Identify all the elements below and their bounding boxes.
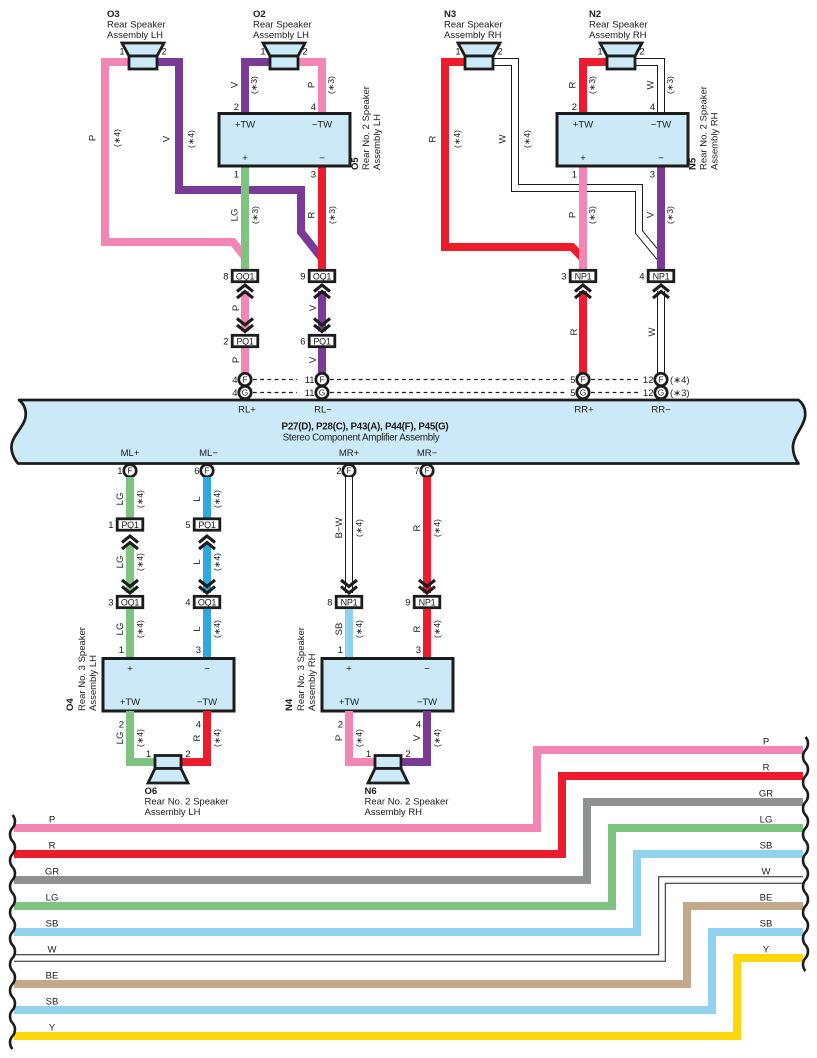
svg-text:RL+: RL+ [238,405,256,416]
svg-text:5: 5 [570,388,575,399]
svg-text:−TW: −TW [197,697,217,708]
svg-text:V: V [412,734,423,741]
svg-text:5: 5 [570,375,575,386]
svg-text:W: W [762,867,771,878]
svg-text:PQ1: PQ1 [121,520,139,530]
svg-text:Assembly LH: Assembly LH [253,30,309,41]
svg-text:O3: O3 [107,9,120,20]
svg-text:LG: LG [115,556,126,569]
svg-text:R: R [568,81,579,88]
svg-text:4: 4 [232,375,237,386]
svg-text:(∗4): (∗4) [432,519,442,537]
svg-text:Rear No. 2 Speaker: Rear No. 2 Speaker [365,797,449,808]
svg-text:OQ1: OQ1 [236,271,255,281]
svg-text:4: 4 [639,271,644,282]
svg-text:1: 1 [572,170,577,181]
svg-text:1: 1 [119,645,124,656]
svg-text:RR−: RR− [651,405,671,416]
svg-text:R: R [412,625,423,632]
svg-text:1: 1 [119,47,124,58]
svg-text:2: 2 [161,47,166,58]
svg-text:8: 8 [223,271,228,282]
svg-text:P: P [307,82,318,88]
svg-text:+: + [580,153,586,164]
svg-text:N4: N4 [284,698,295,711]
svg-text:GR: GR [45,867,59,878]
svg-text:(∗3): (∗3) [670,388,690,399]
svg-text:F: F [127,466,132,476]
svg-text:+TW: +TW [339,697,359,708]
svg-text:R: R [307,211,318,218]
svg-text:Rear No. 3 Speaker: Rear No. 3 Speaker [296,627,307,711]
svg-text:1: 1 [108,520,113,531]
svg-text:(∗4): (∗4) [135,729,145,747]
svg-text:LG: LG [230,209,241,222]
svg-text:Assembly LH: Assembly LH [107,30,163,41]
svg-text:PQ1: PQ1 [198,520,216,530]
svg-text:SB: SB [46,919,59,930]
svg-text:2: 2 [119,720,124,731]
svg-text:(∗3): (∗3) [250,206,260,224]
svg-text:4: 4 [185,597,190,608]
svg-text:(∗4): (∗4) [354,620,364,638]
svg-text:OQ1: OQ1 [198,597,217,607]
svg-text:3: 3 [416,645,421,656]
svg-text:F: F [658,375,663,385]
svg-text:Assembly RH: Assembly RH [444,30,502,41]
svg-text:LG: LG [760,815,773,826]
svg-text:1: 1 [234,170,239,181]
svg-text:LG: LG [115,623,126,636]
svg-text:O4: O4 [65,698,76,711]
svg-text:N5: N5 [688,157,699,170]
svg-text:G: G [319,388,325,398]
svg-text:G: G [580,388,586,398]
svg-text:3: 3 [196,645,201,656]
svg-text:1: 1 [260,47,265,58]
svg-text:O5: O5 [350,157,361,170]
svg-text:+: + [127,664,133,675]
svg-text:−TW: −TW [417,697,437,708]
svg-text:F: F [580,375,585,385]
svg-text:RR+: RR+ [574,405,594,416]
svg-text:W: W [498,134,509,143]
svg-text:W: W [48,945,57,956]
svg-text:−TW: −TW [312,120,332,131]
svg-text:4: 4 [416,720,421,731]
svg-text:Assembly LH: Assembly LH [88,655,99,711]
svg-text:P: P [49,815,55,826]
svg-text:F: F [346,466,351,476]
svg-text:F: F [424,466,429,476]
svg-text:Rear Speaker: Rear Speaker [444,20,503,31]
svg-text:O2: O2 [253,9,266,20]
svg-text:V: V [308,304,319,311]
svg-text:SB: SB [46,997,59,1008]
svg-text:NP1: NP1 [419,597,436,607]
svg-text:(∗3): (∗3) [665,206,675,224]
svg-text:(∗4): (∗4) [452,130,462,148]
svg-text:(∗4): (∗4) [212,620,222,638]
svg-text:N6: N6 [365,786,377,797]
svg-text:V: V [646,211,657,218]
svg-text:(∗4): (∗4) [354,519,364,537]
svg-text:L: L [192,559,203,564]
svg-text:4: 4 [196,720,201,731]
svg-text:(∗4): (∗4) [186,130,196,148]
svg-text:1: 1 [338,645,343,656]
svg-text:R: R [412,524,423,531]
svg-text:5: 5 [185,520,190,531]
svg-text:Rear No. 2 Speaker: Rear No. 2 Speaker [361,86,372,170]
svg-text:Rear No. 2 Speaker: Rear No. 2 Speaker [699,86,710,170]
svg-text:(∗4): (∗4) [212,490,222,508]
svg-text:(∗3): (∗3) [326,76,336,94]
svg-text:OQ1: OQ1 [121,597,140,607]
svg-text:Assembly RH: Assembly RH [307,653,318,711]
svg-text:B−W: B−W [334,518,345,539]
svg-text:(∗4): (∗4) [354,729,364,747]
svg-text:12: 12 [643,388,654,399]
svg-text:3: 3 [650,170,655,181]
svg-text:−TW: −TW [651,120,671,131]
svg-text:L: L [192,626,203,631]
svg-text:(∗4): (∗4) [212,553,222,571]
svg-text:P27(D), P28(C), P43(A), P44(F): P27(D), P28(C), P43(A), P44(F), P45(G) [282,422,449,433]
svg-text:RL−: RL− [314,405,332,416]
svg-text:+: + [242,153,248,164]
svg-text:P: P [763,737,769,748]
svg-text:1: 1 [455,47,460,58]
svg-text:2: 2 [572,102,577,113]
svg-text:−: − [319,153,325,164]
svg-text:NP1: NP1 [575,271,592,281]
svg-text:3: 3 [561,271,566,282]
svg-text:ML−: ML− [199,448,218,459]
svg-text:6: 6 [194,466,199,477]
svg-text:9: 9 [300,271,305,282]
svg-text:11: 11 [305,375,315,386]
svg-text:Y: Y [763,945,770,956]
svg-text:BE: BE [760,893,773,904]
svg-text:4: 4 [232,388,237,399]
svg-text:P: P [88,135,99,141]
svg-text:Rear Speaker: Rear Speaker [253,20,312,31]
svg-text:12: 12 [643,375,654,386]
svg-text:V: V [308,356,319,363]
svg-text:(∗4): (∗4) [432,620,442,638]
svg-text:BE: BE [46,971,59,982]
svg-text:GR: GR [759,789,773,800]
svg-text:P: P [334,735,345,741]
svg-text:2: 2 [497,47,502,58]
svg-text:Assembly RH: Assembly RH [710,112,721,170]
svg-text:(∗4): (∗4) [135,490,145,508]
svg-text:N2: N2 [589,9,601,20]
svg-text:SB: SB [760,841,773,852]
svg-text:W: W [647,327,658,336]
svg-text:Rear Speaker: Rear Speaker [107,20,166,31]
svg-text:Assembly LH: Assembly LH [145,807,201,818]
svg-text:SB: SB [760,919,773,930]
svg-text:SB: SB [334,623,345,636]
svg-text:NP1: NP1 [341,597,358,607]
svg-text:(∗3): (∗3) [327,206,337,224]
svg-text:Rear Speaker: Rear Speaker [589,20,648,31]
svg-text:+: + [346,664,352,675]
svg-text:−: − [424,664,430,675]
svg-text:1: 1 [366,749,371,760]
svg-text:7: 7 [414,466,419,477]
svg-text:(∗3): (∗3) [665,76,675,94]
svg-text:(∗3): (∗3) [587,76,597,94]
svg-text:(∗4): (∗4) [212,729,222,747]
svg-text:LG: LG [46,893,59,904]
svg-text:(∗3): (∗3) [587,206,597,224]
svg-text:1: 1 [597,47,602,58]
svg-text:R: R [192,734,203,741]
svg-text:3: 3 [108,597,113,608]
svg-text:(∗4): (∗4) [432,729,442,747]
svg-text:Assembly LH: Assembly LH [372,114,383,170]
svg-text:+TW: +TW [573,120,593,131]
svg-text:R: R [763,763,770,774]
svg-text:(∗3): (∗3) [249,76,259,94]
svg-text:−: − [658,153,664,164]
svg-text:−: − [204,664,210,675]
svg-text:ML+: ML+ [121,448,140,459]
svg-text:G: G [242,388,248,398]
svg-text:W: W [646,80,657,89]
svg-text:V: V [230,81,241,88]
svg-text:NP1: NP1 [653,271,670,281]
svg-text:11: 11 [305,388,315,399]
svg-text:+TW: +TW [235,120,255,131]
svg-text:(∗4): (∗4) [112,129,122,147]
svg-text:4: 4 [650,102,655,113]
svg-text:PQ1: PQ1 [313,336,331,346]
svg-text:Rear No. 2 Speaker: Rear No. 2 Speaker [145,797,229,808]
svg-text:2: 2 [336,466,341,477]
svg-text:F: F [242,375,247,385]
svg-text:(∗4): (∗4) [670,375,690,386]
svg-text:6: 6 [300,336,305,347]
svg-text:OQ1: OQ1 [313,271,332,281]
svg-text:3: 3 [311,170,316,181]
svg-text:MR−: MR− [417,448,438,459]
svg-text:P: P [568,212,579,218]
svg-text:Assembly RH: Assembly RH [589,30,647,41]
svg-text:(∗4): (∗4) [135,620,145,638]
svg-text:1: 1 [117,466,122,477]
svg-text:2: 2 [302,47,307,58]
svg-text:+TW: +TW [120,697,140,708]
svg-text:G: G [658,388,664,398]
svg-text:R: R [428,135,439,142]
svg-text:P: P [231,305,242,311]
svg-text:R: R [569,328,580,335]
svg-text:PQ1: PQ1 [236,336,254,346]
svg-text:LG: LG [115,493,126,506]
svg-text:P: P [231,357,242,363]
svg-text:Y: Y [49,1023,56,1034]
svg-text:2: 2 [338,720,343,731]
svg-text:9: 9 [405,597,410,608]
svg-text:O6: O6 [145,786,158,797]
svg-text:(∗4): (∗4) [522,130,532,148]
svg-text:4: 4 [311,102,316,113]
svg-text:Rear No. 3 Speaker: Rear No. 3 Speaker [77,627,88,711]
svg-text:2: 2 [223,336,228,347]
svg-text:MR+: MR+ [339,448,360,459]
svg-text:1: 1 [146,749,151,760]
svg-text:8: 8 [327,597,332,608]
svg-text:F: F [204,466,209,476]
svg-text:Assembly RH: Assembly RH [365,807,423,818]
svg-text:R: R [49,841,56,852]
svg-text:2: 2 [639,47,644,58]
svg-text:V: V [162,135,173,142]
svg-text:L: L [192,496,203,501]
svg-text:2: 2 [234,102,239,113]
svg-text:2: 2 [405,749,410,760]
svg-text:Stereo Component Amplifier Ass: Stereo Component Amplifier Assembly [283,433,440,444]
svg-text:F: F [319,375,324,385]
svg-text:LG: LG [115,732,126,745]
svg-text:N3: N3 [444,9,456,20]
svg-text:(∗4): (∗4) [135,553,145,571]
svg-text:2: 2 [185,749,190,760]
